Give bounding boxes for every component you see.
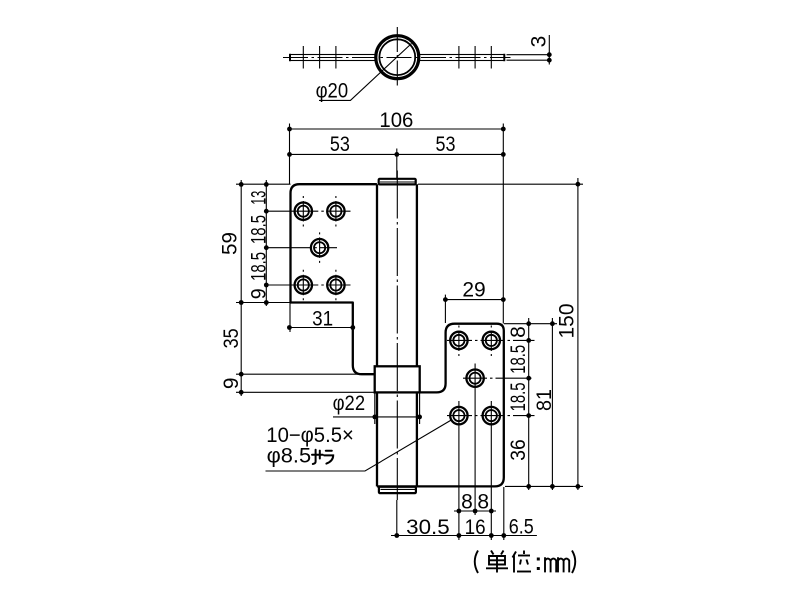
barrel left edge [376,184,378,486]
ext horiz top edge [236,183,291,185]
paren close [572,551,575,574]
svg-text:8: 8 [477,491,489,514]
dim 30.5/16/6.5 line [391,535,537,537]
svg-text:3: 3 [528,36,551,48]
svg-text:φ22: φ22 [333,392,366,415]
barrel bottom edge [377,485,417,487]
letter m [545,557,556,572]
hole position tick left 1 [302,46,304,69]
svg-text:φ8.5: φ8.5 [267,445,312,468]
dim 31 ext [289,303,291,332]
ext vertical center 53 [396,149,398,179]
dim phi22 line [333,416,420,418]
svg-text:8: 8 [461,491,473,514]
knuckle outer circle [376,36,419,79]
svg-text:31: 31 [312,308,333,331]
countersunk hole L1 [295,203,312,220]
ext horiz arm top [236,373,361,375]
dim line 13/18.5/18.5/9 [265,180,267,306]
row centerline L bottom [266,284,350,286]
svg-text:18.5: 18.5 [248,252,271,281]
svg-text:29: 29 [462,279,485,302]
dim 53 53 [290,153,504,155]
hole position tick right 2 [474,46,476,69]
ext vertical right 106/29 [502,124,504,324]
ext plate right edge down [503,487,505,540]
hole vertical centerlines L [302,196,304,227]
dim 8 8 [454,510,496,512]
ext horiz plate top [504,323,557,325]
hole position tick left 2 [319,46,321,69]
countersunk hole R5 [483,407,500,424]
svg-text:150: 150 [556,304,579,339]
countersunk hole R4 [450,407,467,424]
row centerline R top [447,339,535,341]
svg-text:30.5: 30.5 [406,516,450,539]
ext horiz bottom [505,485,583,487]
countersunk hole R2 [483,332,500,349]
countersunk hole R3 middle [466,370,483,387]
dim 3 extension lines [507,54,552,56]
kanji tan [486,551,508,573]
countersunk hole L4 [295,276,312,293]
barrel centerline [396,171,398,501]
row centerline L top [266,210,350,212]
barrel bottom cap [379,487,416,493]
svg-text:9: 9 [220,377,243,389]
hole position tick right 1 [458,46,460,69]
full-width colon [537,558,540,571]
svg-text:φ20: φ20 [316,80,349,103]
letter m [558,557,569,572]
svg-text:81: 81 [533,389,556,411]
dim 3 line [548,35,550,65]
countersunk hole L3 middle [311,239,328,256]
dim phi22 ext lines [374,392,376,424]
dim line 8/18.5/18.5/36 [528,318,530,490]
right plate [417,324,504,487]
svg-text:6.5: 6.5 [509,516,534,539]
svg-text:53: 53 [436,133,456,156]
vertical centerline [396,27,398,88]
ext vertical left 106 [289,124,291,185]
countersunk hole R1 [450,332,467,349]
ext horiz plate bottom [236,302,291,304]
dim 29 ext [444,295,446,323]
countersunk hole L5 [327,276,344,293]
ext horiz top to 150 [418,183,583,185]
hole position tick right 3 [490,46,492,69]
left plate [291,184,377,374]
svg-text:9: 9 [248,288,271,299]
hole position tick left 3 [335,46,337,69]
top-view plate bar [290,55,505,61]
dim 29 [445,299,503,301]
dim 31 [289,327,352,329]
svg-text:18.5: 18.5 [507,382,530,411]
row centerline R bottom [447,415,535,417]
knuckle inner circle [379,39,415,75]
svg-text:59: 59 [219,232,242,255]
horizontal centerline [283,57,511,59]
kanji i [513,551,532,573]
dim line 150 [577,178,579,490]
barrel top cap [379,179,416,185]
dim line 81 [551,318,553,490]
hole vertical centerlines R [458,326,460,357]
leader phi20 [319,44,412,101]
ext horiz sleeve bottom [236,391,375,393]
dim 106 [290,128,504,130]
svg-text:18.5: 18.5 [248,215,271,244]
row centerline R middle [463,377,535,379]
unit note (tan-i : mm) [475,551,576,574]
svg-text:53: 53 [330,133,350,156]
leader countersink label [266,420,452,471]
countersunk hole L2 [327,203,344,220]
dim line 59/35/9 [240,180,242,396]
svg-text:35: 35 [220,328,243,348]
row centerline L middle [266,247,337,249]
paren open [475,551,478,574]
barrel right edge [416,184,418,486]
svg-text:106: 106 [379,109,413,132]
katakana sa-ra (drawn) [312,450,333,464]
svg-text:16: 16 [465,516,486,539]
svg-text:13: 13 [248,191,271,205]
svg-text:8: 8 [507,326,530,338]
svg-text:18.5: 18.5 [507,345,530,374]
svg-text:36: 36 [507,439,530,461]
sleeve phi22 [375,366,420,392]
